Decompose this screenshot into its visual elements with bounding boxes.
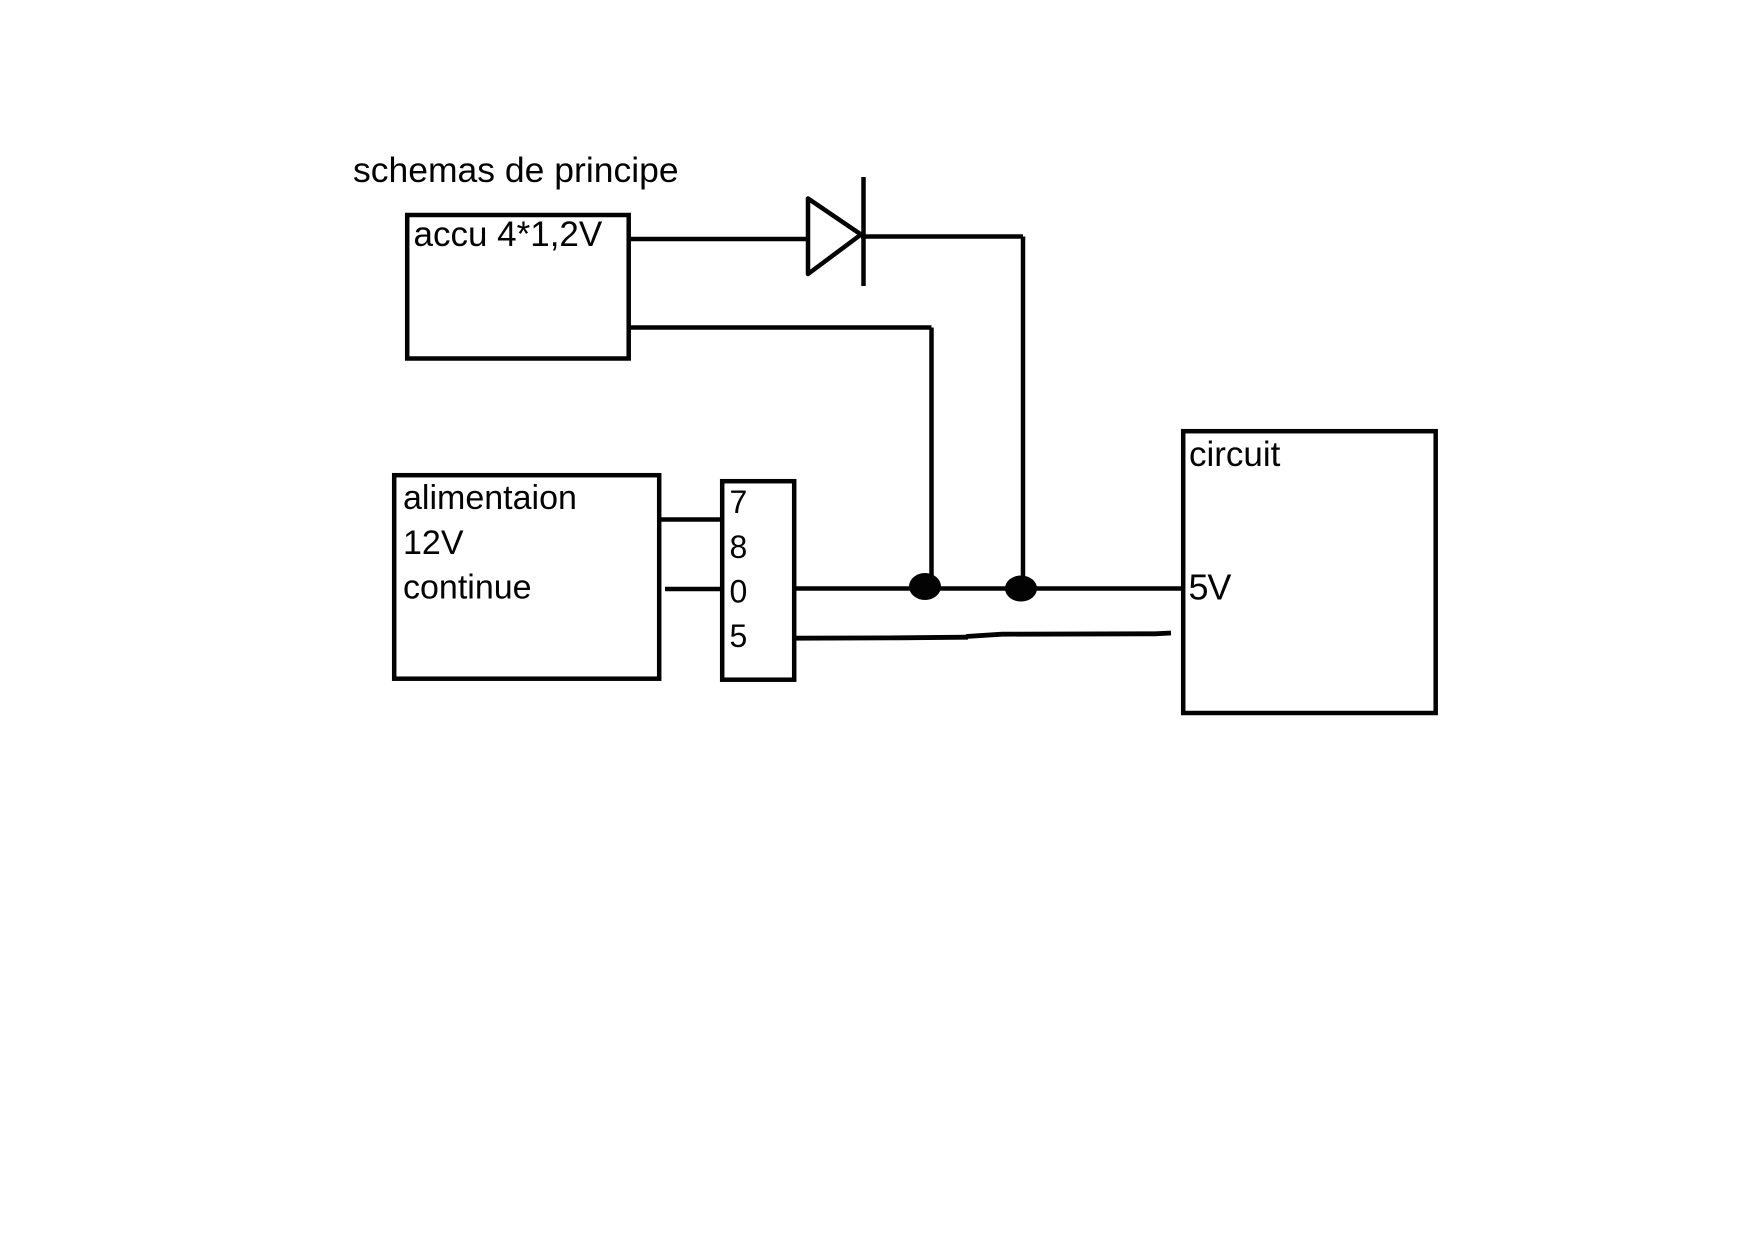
wire: vertical drop from diode output to 5V rail junction bbox=[1021, 237, 1026, 586]
wire: accu top output to diode D1 anode bbox=[629, 237, 810, 242]
wire: vertical drop from accu bottom output to 5V rail junction bbox=[929, 328, 934, 583]
wire: alimentation to 7805 input pin bbox=[660, 517, 723, 522]
svg-text:accu 4*1,2V: accu 4*1,2V bbox=[414, 215, 603, 254]
wire: diode cathode to corner above junction bbox=[861, 234, 1023, 239]
block: circuit load bbox=[1183, 431, 1436, 713]
svg-text:continue: continue bbox=[403, 569, 532, 607]
wire: 5V rail from 7805 output to circuit block bbox=[794, 586, 1183, 591]
svg-text:0: 0 bbox=[730, 574, 748, 610]
svg-text:12V: 12V bbox=[403, 524, 464, 562]
wire: accu bottom output horizontal bbox=[629, 325, 932, 330]
svg-text:7: 7 bbox=[730, 484, 748, 520]
wire: alimentation to 7805 ground pin bbox=[665, 587, 723, 592]
junction dot: accu branch on 5V rail bbox=[909, 573, 941, 600]
svg-text:5: 5 bbox=[730, 618, 748, 654]
svg-text:5V: 5V bbox=[1189, 567, 1232, 608]
IC U1: 7805 voltage regulator bbox=[722, 481, 794, 680]
junction dot: diode branch on 5V rail bbox=[1005, 576, 1037, 602]
wire: return line from 7805 toward circuit (left segment) bbox=[794, 637, 968, 638]
block: accu battery pack bbox=[407, 215, 629, 359]
svg-text:schemas de principe: schemas de principe bbox=[353, 150, 679, 190]
wire: return line toward circuit (right segment) bbox=[966, 633, 1171, 637]
svg-text:8: 8 bbox=[730, 529, 748, 565]
diode D1 cathode bar bbox=[861, 177, 866, 286]
svg-text:alimentaion: alimentaion bbox=[403, 479, 577, 517]
svg-text:circuit: circuit bbox=[1189, 435, 1281, 474]
diode D1 anode triangle bbox=[808, 199, 861, 275]
block: alimentation 12V continue bbox=[394, 475, 659, 679]
